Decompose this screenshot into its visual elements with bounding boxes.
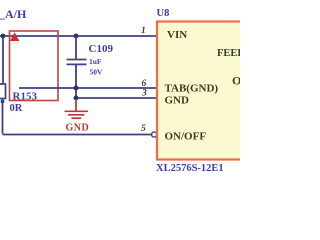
wire GND net pin3 [76, 97, 157, 99]
red highlight rectangle [10, 31, 59, 101]
resistor R153 body [0, 84, 6, 99]
svg-text:_A/H: _A/H [0, 7, 27, 21]
node junction at (3,36) [1, 34, 6, 39]
IC U8 body [157, 22, 243, 160]
svg-text:XL2576S-12E1: XL2576S-12E1 [156, 163, 224, 174]
pin5 inversion bubble [152, 132, 157, 137]
node junction at (76,88) [74, 86, 79, 91]
svg-text:1uF: 1uF [89, 57, 102, 66]
wire VIN net (top horizontal) [0, 35, 157, 37]
svg-text:FEEDBACK: FEEDBACK [217, 48, 240, 59]
svg-text:C109: C109 [89, 43, 114, 55]
svg-text:1: 1 [141, 26, 146, 36]
wire R153 down [2, 99, 4, 134]
svg-text:3: 3 [141, 89, 147, 99]
ground symbol [65, 99, 89, 118]
svg-text:ON/OFF: ON/OFF [165, 131, 207, 143]
svg-text:6: 6 [142, 79, 147, 89]
svg-text:GND: GND [66, 123, 90, 134]
svg-text:GND: GND [165, 95, 190, 107]
node junction at (76,36) cap tap [74, 34, 79, 39]
svg-text:OUT: OUT [232, 74, 240, 88]
svg-text:5: 5 [141, 124, 146, 134]
wire ON/OFF net bottom [3, 134, 152, 136]
svg-text:TAB(GND): TAB(GND) [165, 83, 219, 95]
resistor bottom lead junction [1, 100, 5, 104]
svg-text:VIN: VIN [167, 29, 187, 41]
svg-text:0R: 0R [10, 103, 23, 114]
power arrow triangle [10, 32, 20, 41]
svg-text:50V: 50V [90, 68, 104, 77]
wire TAB(GND) net pin6 [19, 87, 157, 89]
node junction at (76,98) [74, 96, 79, 101]
svg-text:U8: U8 [157, 8, 170, 19]
wire from node down to R153 [2, 36, 4, 84]
capacitor C109 [67, 36, 87, 99]
svg-text:R153: R153 [13, 91, 38, 103]
